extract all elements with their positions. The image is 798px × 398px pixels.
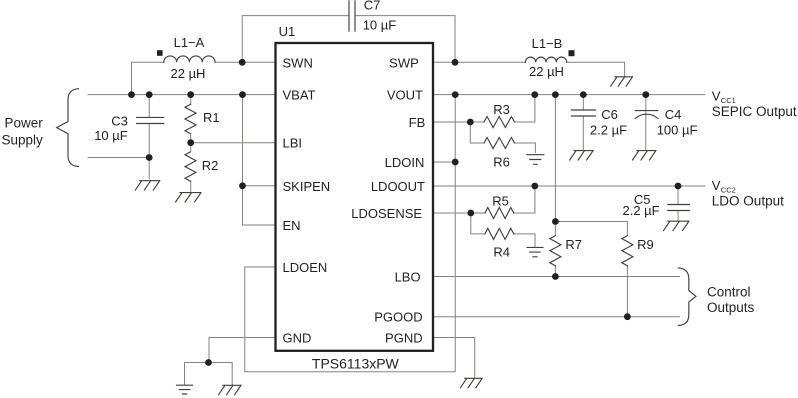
- svg-text:22 µH: 22 µH: [529, 64, 564, 79]
- svg-text:LDOOUT: LDOOUT: [371, 179, 425, 194]
- svg-text:R5: R5: [492, 194, 509, 209]
- svg-text:VBAT: VBAT: [283, 88, 316, 103]
- svg-text:100 µF: 100 µF: [657, 123, 698, 138]
- svg-text:GND: GND: [283, 331, 312, 346]
- svg-text:C3: C3: [111, 114, 128, 129]
- svg-text:SKIPEN: SKIPEN: [283, 179, 331, 194]
- svg-text:R4: R4: [493, 245, 510, 260]
- svg-text:LBI: LBI: [283, 136, 303, 151]
- svg-text:U1: U1: [279, 24, 296, 39]
- svg-text:R9: R9: [637, 237, 654, 252]
- svg-text:TPS6113xPW: TPS6113xPW: [312, 355, 400, 371]
- svg-text:PGOOD: PGOOD: [374, 310, 422, 325]
- svg-text:Outputs: Outputs: [707, 300, 755, 315]
- svg-text:FB: FB: [409, 115, 426, 130]
- svg-text:R2: R2: [202, 158, 219, 173]
- svg-text:C7: C7: [364, 0, 381, 12]
- svg-text:EN: EN: [283, 218, 301, 233]
- svg-text:V: V: [712, 178, 721, 193]
- svg-text:LDOEN: LDOEN: [283, 260, 328, 275]
- svg-text:R3: R3: [493, 102, 510, 117]
- svg-text:Power: Power: [5, 116, 44, 131]
- svg-text:LDOIN: LDOIN: [385, 155, 425, 170]
- svg-text:LBO: LBO: [395, 270, 421, 285]
- svg-text:Supply: Supply: [2, 132, 44, 147]
- svg-text:C6: C6: [601, 107, 618, 122]
- svg-text:SEPIC Output: SEPIC Output: [712, 104, 797, 119]
- svg-text:R7: R7: [565, 237, 582, 252]
- svg-text:10 µF: 10 µF: [94, 128, 128, 143]
- svg-text:V: V: [712, 88, 721, 103]
- svg-text:LDO Output: LDO Output: [712, 194, 784, 209]
- svg-text:22 µH: 22 µH: [171, 66, 206, 81]
- svg-text:LDOSENSE: LDOSENSE: [351, 206, 422, 221]
- svg-text:VOUT: VOUT: [387, 88, 423, 103]
- svg-text:SWP: SWP: [389, 55, 419, 70]
- svg-text:R1: R1: [203, 110, 220, 125]
- svg-text:C4: C4: [665, 107, 682, 122]
- svg-text:L1−A: L1−A: [174, 35, 205, 50]
- svg-text:R6: R6: [493, 154, 510, 169]
- svg-text:2.2 µF: 2.2 µF: [623, 203, 660, 218]
- svg-text:PGND: PGND: [385, 331, 423, 346]
- svg-text:L1−B: L1−B: [532, 36, 563, 51]
- svg-text:SWN: SWN: [283, 55, 313, 70]
- svg-text:2.2 µF: 2.2 µF: [590, 123, 627, 138]
- svg-text:10 µF: 10 µF: [363, 18, 397, 33]
- svg-text:Control: Control: [707, 285, 751, 300]
